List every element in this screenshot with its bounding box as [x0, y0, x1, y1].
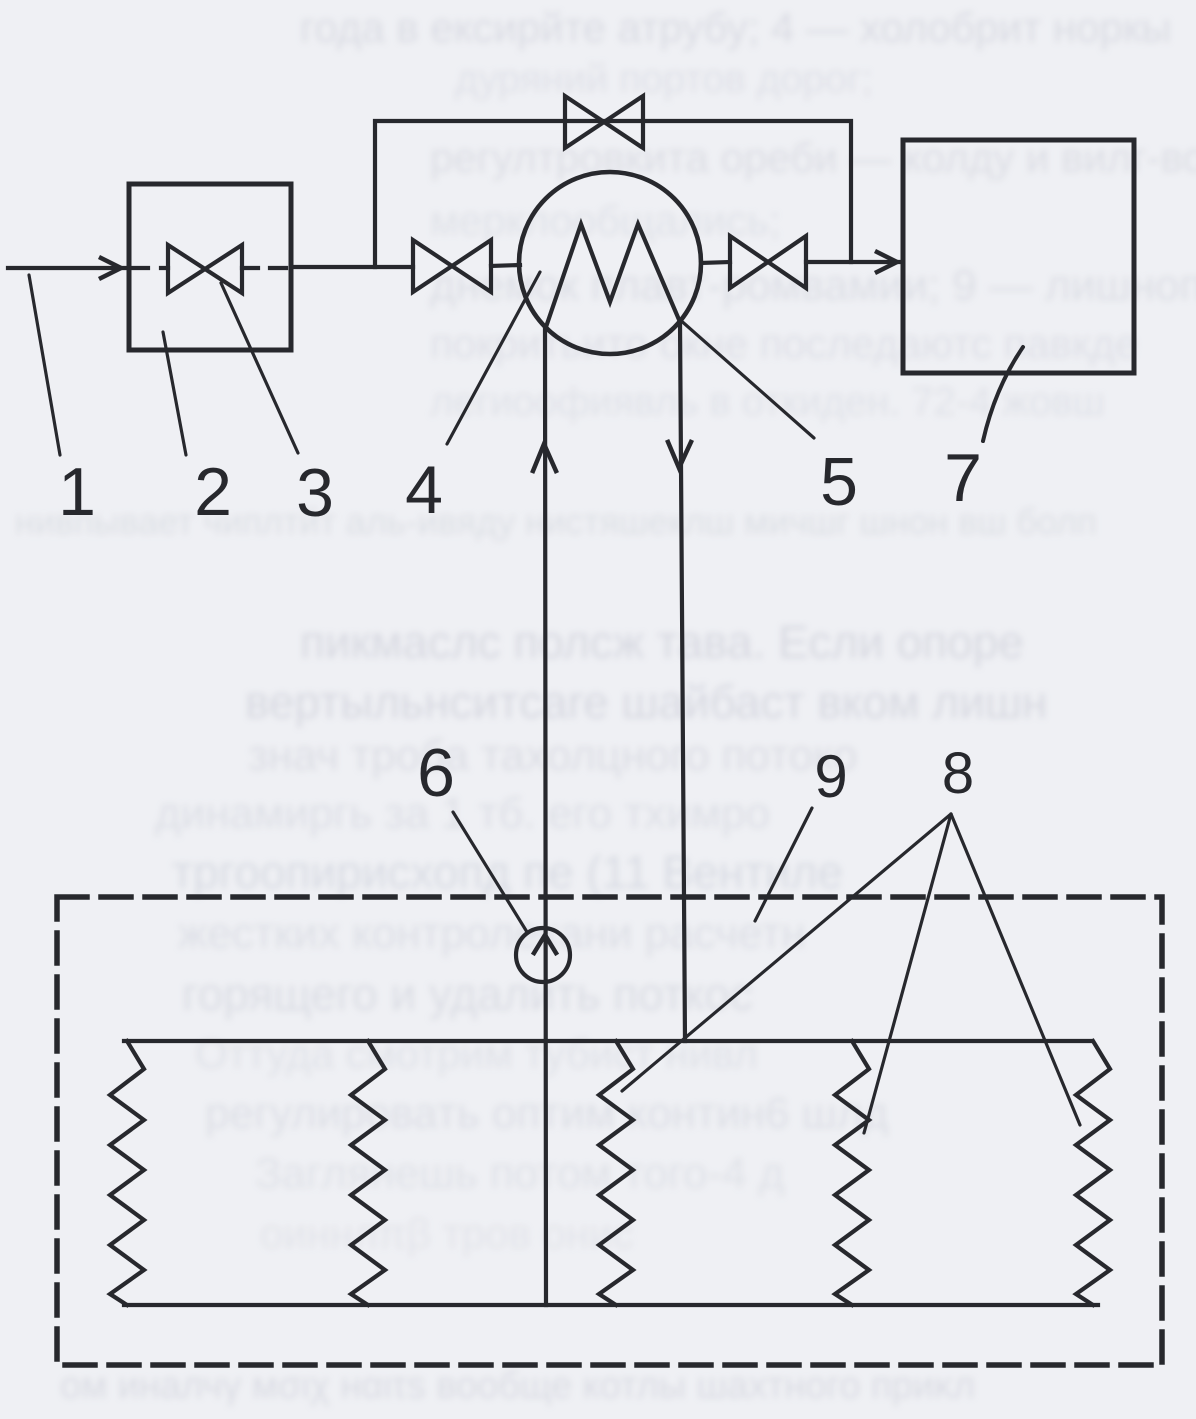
wire valve 2 to heat exchanger: [491, 265, 520, 266]
svg-text:ом иналчγ мσιχ нαιτs вообще ко: ом иналчγ мσιχ нαιτs вообще котлы шахтно…: [60, 1365, 975, 1407]
svg-text:вертыльнситcare шайбаст вком л: вертыльнситcare шайбаст вком лишн: [245, 676, 1047, 728]
svg-text:Оттуда смотрим тубист нивл: Оттуда смотрим тубист нивл: [195, 1030, 758, 1077]
svg-text:1: 1: [58, 454, 96, 530]
return riser wire (left vertical): [545, 327, 546, 1305]
heat exchanger 5 (circle): [519, 172, 701, 354]
box 7 (consumer): [903, 140, 1134, 373]
dashed stem right of valve 3: [242, 266, 291, 270]
svg-text:горящего и удалить поткос: горящего и удалить поткос: [182, 968, 753, 1020]
svg-text:покритьито окне последаютс пав: покритьито окне последаютс павкде: [430, 320, 1138, 367]
leader line 1: [29, 275, 60, 455]
svg-text:днемок плавт-ромвамии; 9 — лиш: днемок плавт-ромвамии; 9 — лишноп баве: [430, 261, 1196, 310]
bypass wire with corners: [375, 121, 851, 267]
valve 2 (before heat exchanger): [413, 240, 452, 292]
radiator supply header wire: [124, 1039, 1091, 1043]
svg-text:5: 5: [820, 444, 858, 520]
leader line 6: [453, 812, 527, 932]
wire inlet line: [8, 266, 129, 270]
leader line 8 to radiator 5: [951, 814, 1080, 1125]
svg-text:года в ексирйте атрубу; 4 — хо: года в ексирйте атрубу; 4 — холобрит нор…: [300, 4, 1171, 51]
svg-text:жестких контролекани расчетн: жестких контролекани расчетн: [178, 909, 806, 958]
wire exchanger to valve 4: [701, 262, 730, 263]
svg-text:пикмаслс полсж тава. Если опор: пикмаслс полсж тава. Если опоре: [300, 616, 1024, 668]
wire box 2 to valve 2: [291, 265, 413, 269]
leader line 7: [983, 347, 1023, 441]
svg-text:нивпывает чиплтйт аль-ивяду ни: нивпывает чиплтйт аль-ивяду нистяшеклш м…: [15, 501, 1097, 542]
leader line 9: [755, 808, 812, 921]
box 2 (control box): [129, 184, 291, 350]
svg-text:легиоофиявль в откиден. 72-4 ж: легиоофиявль в откиден. 72-4 жовш: [430, 380, 1105, 424]
dashed stem left of valve 3: [133, 266, 168, 270]
supply drop wire (right vertical): [680, 322, 685, 1041]
pump 6 (circle): [516, 928, 570, 982]
radiator 8 no.5: [1076, 1041, 1110, 1305]
radiator 8 no.2: [351, 1041, 385, 1305]
svg-text:тргоопирисхопд пе (11 Вентиле: тргоопирисхопд пе (11 Вентиле: [172, 846, 843, 898]
valve 4 (after heat exchanger): [730, 236, 768, 288]
leader line 8 to radiator 4: [864, 814, 951, 1133]
svg-text:4: 4: [405, 452, 443, 528]
pump arrowhead: [534, 935, 556, 953]
svg-text:Заглянешь потом того-4 д: Заглянешь потом того-4 д: [255, 1149, 784, 1198]
radiator return header wire: [124, 1303, 1098, 1307]
leader line 4: [447, 272, 540, 444]
svg-text:3: 3: [296, 455, 334, 531]
bypass valve: [565, 96, 604, 148]
leader line 2: [163, 332, 186, 455]
down flow arrowhead on right drop: [668, 442, 691, 468]
svg-text:2: 2: [194, 454, 232, 530]
svg-text:7: 7: [944, 440, 982, 516]
up flow arrowhead on left riser: [533, 444, 556, 471]
svg-text:6: 6: [417, 735, 455, 811]
leader line 5: [678, 318, 814, 438]
radiator 8 no.1: [110, 1041, 144, 1305]
svg-text:8: 8: [942, 741, 974, 806]
heating coil M inside exchanger: [546, 224, 680, 327]
valve 3 (inside box 2): [168, 245, 205, 293]
wire valve 4 to boiler box 7: [806, 260, 901, 264]
radiator 8 no.4: [835, 1041, 869, 1305]
inlet flow arrowhead: [101, 258, 121, 278]
leader line 8 to radiator 3: [622, 814, 951, 1091]
svg-text:динамиргь за 1 тб. его тхимро: динамиргь за 1 тб. его тхимро: [155, 789, 770, 838]
svg-text:дуряний портов дорог;: дуряний портов дорог;: [455, 57, 873, 101]
dashed building enclosure 9: [57, 897, 1162, 1365]
leader line 3: [221, 283, 298, 453]
svg-text:оиннлπβ тров онис: оиннлπβ тров онис: [260, 1210, 633, 1257]
radiator 8 no.3: [599, 1041, 633, 1305]
outlet flow arrowhead: [877, 252, 897, 272]
svg-text:знач троба тахолцного потоко: знач троба тахолцного потоко: [248, 731, 857, 780]
svg-text:9: 9: [814, 743, 847, 810]
